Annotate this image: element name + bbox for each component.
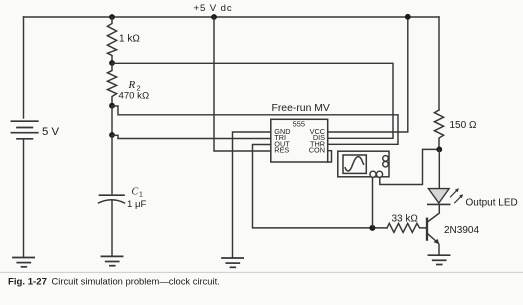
wire: scope probe to OUT node — [372, 177, 374, 228]
ground (C1) — [101, 256, 122, 265]
svg-text:1 μF: 1 μF — [127, 199, 147, 210]
wire: node to TRI junction — [111, 106, 113, 135]
oscilloscope — [338, 151, 389, 177]
svg-text:555: 555 — [293, 119, 305, 128]
svg-text:+5 V dc: +5 V dc — [194, 3, 233, 14]
wire: +5V to RES pin — [214, 17, 271, 151]
wire: C1 to ground — [111, 201, 113, 257]
svg-text:5 V: 5 V — [42, 126, 59, 138]
wire: CON pin stub — [328, 151, 332, 162]
svg-text:Free-run MV: Free-run MV — [272, 103, 330, 114]
transistor Q1 2N3904 — [427, 219, 440, 245]
ground (555 GND) — [222, 258, 243, 267]
node: R2/C1 junction (THR/TRI node) — [109, 103, 115, 109]
svg-text:Circuit simulation problem—clo: Circuit simulation problem—clock circuit… — [52, 275, 220, 286]
wire: LED cathode to collector — [428, 204, 440, 221]
svg-text:RES: RES — [274, 146, 289, 155]
node: R1/R2 junction — [109, 60, 115, 66]
svg-text:R: R — [128, 79, 136, 91]
wire: GND pin to ground — [233, 132, 271, 258]
resistor R3 150 Ohm — [434, 110, 443, 149]
wire: OUT pin to base resistor — [253, 145, 388, 228]
wire: battery to ground — [23, 139, 25, 257]
node: base network junction — [369, 225, 375, 231]
wire: junction to LED — [438, 149, 440, 188]
ground (emitter) — [428, 255, 449, 264]
wire: +5V top rail — [24, 16, 440, 18]
capacitor C1 — [99, 195, 125, 203]
svg-text:CON: CON — [309, 146, 325, 155]
svg-text:Output LED: Output LED — [466, 198, 518, 209]
IC U1 555 timer box — [271, 119, 328, 162]
svg-text:2N3904: 2N3904 — [444, 225, 479, 236]
resistor R1 1 kOhm — [107, 17, 116, 63]
svg-text:33 kΩ: 33 kΩ — [392, 213, 419, 224]
battery B1 — [11, 121, 37, 139]
svg-text:1 kΩ: 1 kΩ — [119, 34, 140, 45]
wire: +5V rail to 150 ohm resistor — [438, 17, 440, 110]
svg-text:150 Ω: 150 Ω — [450, 120, 477, 131]
LED D1 — [428, 188, 463, 204]
wire: R2/C1 node to THR pin — [112, 106, 398, 144]
svg-text:C: C — [132, 187, 139, 198]
page rule — [0, 271, 523, 273]
node: TRI junction — [109, 132, 115, 138]
node: rail junction for RES drop — [211, 14, 217, 20]
svg-text:Fig. 1-27: Fig. 1-27 — [8, 276, 47, 287]
resistor R2 470 kOhm — [107, 63, 116, 106]
node: LED anode junction — [436, 147, 442, 153]
resistor R4 33 kOhm — [387, 223, 427, 232]
node: rail junction at R1 — [109, 14, 115, 20]
wire: junction down to C1 — [111, 135, 113, 194]
svg-text:1: 1 — [139, 192, 143, 199]
wire: junction to TRI pin — [112, 135, 271, 138]
wire: scope probe to LED anode node — [380, 149, 440, 184]
node: rail junction at VCC — [405, 14, 411, 20]
wire: emitter to ground — [438, 244, 440, 255]
wire: left column rail to battery — [23, 17, 25, 118]
wire: R1/R2 node to DIS pin — [112, 63, 393, 138]
svg-text:470 kΩ: 470 kΩ — [119, 91, 150, 102]
wire: VCC pin to +5V rail — [328, 17, 408, 132]
ground (battery) — [13, 258, 34, 267]
